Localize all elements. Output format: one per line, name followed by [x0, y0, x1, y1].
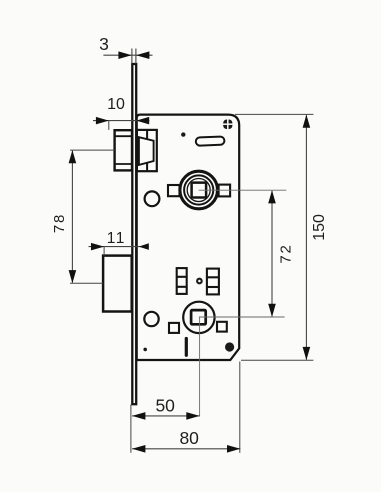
svg-text:10: 10 [107, 96, 125, 113]
top hub inner ring [187, 179, 210, 202]
dimension 150: extension line bottom [241, 359, 313, 361]
dimension 78: extension line top [70, 149, 114, 151]
bottom hub square hole [191, 310, 206, 324]
dimension 10: line [93, 120, 149, 122]
dimension 50: left extension line below faceplate [130, 405, 132, 453]
dimension 150: bottom arrow [303, 347, 311, 360]
dimension 3: line [103, 54, 152, 56]
lock case outline [137, 115, 240, 360]
dimension 78: top arrow [69, 150, 77, 163]
svg-text:78: 78 [51, 213, 68, 233]
latch head upper line [115, 135, 131, 137]
left ladder stack [177, 268, 187, 294]
svg-text:11: 11 [107, 230, 126, 247]
top hub left tab [168, 185, 180, 196]
svg-text:50: 50 [155, 396, 175, 416]
dimension 72: extension line from top hub center [199, 189, 287, 191]
dimension 72: line [271, 191, 273, 317]
top hub outer circle [180, 171, 218, 209]
svg-text:3: 3 [99, 34, 109, 54]
dimension 10: right arrow [136, 117, 149, 125]
dimension 3: left arrow [118, 51, 131, 59]
latch bevel trapezoid [139, 137, 154, 165]
top hub right tab [219, 185, 231, 197]
dimension 80: right extension line [239, 362, 241, 453]
svg-text:80: 80 [179, 428, 199, 448]
svg-text:72: 72 [278, 243, 295, 263]
dimension 72: extension line from bottom hub center [199, 316, 285, 318]
upper round hole [145, 191, 160, 206]
dimension 78: extension line bottom [70, 282, 103, 284]
latch tail divider top segment [146, 131, 148, 139]
dimension 11: right arrow [139, 243, 149, 250]
dimension 150: extension line top [235, 113, 313, 115]
small blob between ladders [197, 279, 202, 284]
latch tail box (inside case) [137, 130, 157, 171]
dimension 78: bottom arrow [69, 270, 77, 283]
dimension 50: extension line from bottom hub down [199, 317, 201, 416]
oval slot [196, 136, 225, 145]
dimension 150: top arrow [303, 115, 311, 128]
dimension 11: left arrow [91, 243, 104, 251]
dimension 78: line [71, 151, 73, 283]
bottom right small square [217, 322, 227, 332]
tiny dot bottom-left [143, 348, 147, 352]
dimension 72: top arrow [268, 190, 276, 203]
dimension 50: left arrow [132, 412, 145, 420]
dimension 3: right arrow [136, 51, 149, 59]
dimension 3: extension lines [131, 49, 133, 64]
bottom hub circle [183, 302, 214, 333]
latch tail divider bottom segment [146, 163, 148, 171]
dimension 50: line [132, 415, 200, 417]
dimension 150: line [305, 115, 307, 359]
latch head box (outside faceplate) [115, 130, 132, 170]
svg-text:150: 150 [311, 214, 328, 241]
filled dot [225, 342, 234, 351]
bottom left small square [169, 323, 179, 333]
lower round hole [144, 312, 158, 326]
dimension 10: left arrow [96, 117, 109, 125]
dimension 11: extension line [103, 247, 105, 256]
dimension 80: left arrow [132, 445, 145, 453]
deadbolt [103, 256, 132, 312]
latch head lower line [115, 163, 131, 165]
faceplate [132, 64, 136, 404]
dimension 50: right arrow [186, 412, 199, 420]
dimension 80: right arrow [227, 445, 240, 453]
top hub square spindle hole [192, 183, 207, 198]
right ladder stack [207, 269, 219, 295]
small rivet dot [181, 132, 185, 136]
screw head top-right [223, 119, 233, 130]
dimension 72: bottom arrow [268, 304, 276, 317]
dimension 80: line [132, 448, 240, 450]
dimension 11: line [89, 246, 149, 248]
dimension 10: extension line [108, 121, 110, 130]
top hub middle ring [184, 175, 213, 204]
tick mark [185, 339, 188, 356]
